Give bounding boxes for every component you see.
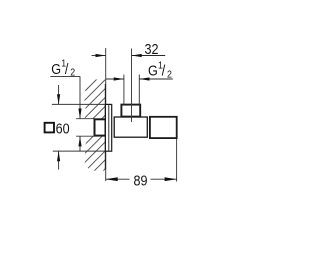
concealed socket bottom extension line	[76, 135, 95, 137]
outlet axis / extension line for dim 32	[131, 49, 133, 123]
dim G1/2 top left arrow	[106, 77, 124, 80]
extension line above wall (dim 32)	[105, 48, 107, 84]
escutcheon front edge line	[108, 105, 110, 151]
svg-text:89: 89	[134, 171, 148, 188]
svg-text:G1/2: G1/2	[51, 58, 75, 79]
dim 60 square symbol	[45, 123, 54, 133]
right extension line for dim 89	[176, 139, 178, 182]
escutcheon bottom extension line (dim 60)	[53, 150, 106, 152]
svg-text:G1/2: G1/2	[148, 60, 172, 81]
dim 60 upper down arrow	[57, 85, 60, 104]
valve body mid section	[114, 117, 147, 137]
concealed socket (thick walled box in wall)	[95, 119, 106, 135]
dim 89 line left segment with left arrow	[106, 177, 130, 181]
thread extension line right (G1/2 outlet)	[138, 75, 140, 105]
outlet head boss	[121, 105, 140, 117]
thread extension line left (G1/2 outlet)	[123, 75, 125, 105]
escutcheon (60x60 square plate, side view)	[105, 104, 111, 151]
wall hatch upper part	[83, 61, 106, 200]
dim 89 line right segment with right arrow	[151, 177, 177, 181]
dim 60 lower up arrow	[57, 151, 60, 169]
svg-text:60: 60	[56, 119, 70, 136]
G1/2 left leader vertical with down arrow	[78, 76, 81, 118]
svg-text:32: 32	[144, 40, 158, 57]
concealed socket top extension line	[76, 118, 95, 120]
dim 32 left arrow	[92, 54, 106, 57]
G1/2 left lower up arrow	[78, 136, 81, 151]
wall face line	[105, 84, 107, 170]
escutcheon top extension line (dim 60)	[52, 103, 106, 105]
G1/2 left leader underline	[50, 75, 80, 77]
dim 32 right arrow	[132, 54, 166, 57]
extension line below wall (dim 89)	[105, 170, 107, 181]
wall hatch lower part	[83, 61, 106, 200]
valve right block	[150, 117, 177, 138]
dim G1/2 top right arrow	[139, 77, 173, 80]
